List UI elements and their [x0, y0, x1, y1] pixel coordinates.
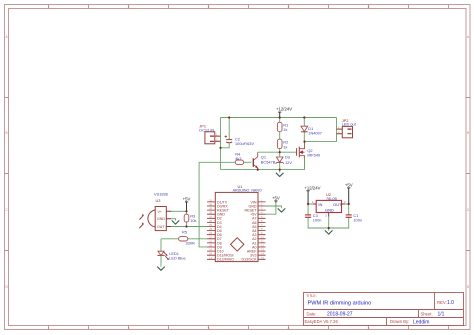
node: C2 bottom junction [219, 147, 221, 149]
svg-text:U3: U3 [156, 198, 161, 203]
wire: +12/24V top rail [221, 117, 337, 119]
svg-text:8: 8 [368, 326, 370, 330]
U1 left pins [207, 202, 215, 259]
svg-text:B: B [6, 131, 8, 135]
svg-text:10k: 10k [190, 218, 196, 223]
resistor R1 [277, 118, 288, 140]
svg-text:EasyEDA V5.7.26: EasyEDA V5.7.26 [305, 319, 339, 324]
svg-text:1k: 1k [283, 144, 287, 149]
node: +12/24V / R1 junction [279, 116, 281, 118]
node: Q1 emitter junction [257, 169, 259, 171]
wire: U1 +5V pin to +5V flag [266, 203, 276, 214]
svg-text:6: 6 [288, 5, 290, 9]
capacitor C3 [305, 213, 321, 222]
power flag +5V at U1 [272, 196, 280, 203]
svg-text:LED Blue: LED Blue [169, 256, 185, 261]
node: D1 bottom / Q2 drain junction [303, 141, 305, 143]
title block (decorative) [304, 293, 464, 326]
wire: ground rail bottom of input stage [221, 169, 305, 171]
svg-text:GND: GND [325, 207, 334, 212]
connector JP2 LED out [337, 118, 357, 138]
svg-text:OUT: OUT [157, 225, 165, 229]
svg-text:Leddim: Leddim [413, 320, 429, 326]
node: R3 bottom / OUT junction [185, 225, 187, 227]
ground below zener stage [276, 170, 284, 177]
svg-text:REV:: REV: [437, 300, 447, 305]
resistor R2 [277, 139, 288, 152]
wire: R4 net vertical down to Arduino D9 [199, 162, 207, 247]
svg-text:R5: R5 [182, 230, 187, 235]
svg-text:100n: 100n [353, 218, 362, 223]
svg-text:3: 3 [128, 326, 130, 330]
svg-text:ARDUINO_NANO: ARDUINO_NANO [233, 188, 262, 193]
svg-text:4k7: 4k7 [235, 156, 241, 161]
svg-text:6: 6 [288, 326, 290, 330]
node: gate node junction R2/D3 [279, 151, 281, 153]
resistor R3 10k [184, 211, 196, 226]
svg-text:330R: 330R [186, 241, 195, 246]
ground at IR receiver GND pin [171, 219, 179, 224]
wire: regulator left column [308, 204, 329, 228]
svg-text:12V: 12V [285, 160, 292, 165]
svg-text:3: 3 [128, 5, 130, 9]
svg-text:D13/SCK: D13/SCK [242, 258, 258, 262]
svg-text:Sheet:: Sheet: [421, 311, 433, 316]
svg-text:1N4007: 1N4007 [308, 130, 322, 135]
node: C2 top junction [228, 116, 230, 118]
capacitor C1 [346, 213, 362, 222]
transistor Q2 IRF540 [297, 142, 321, 170]
diamond logo inside U1 [231, 238, 244, 251]
svg-text:PWM IR dimming arduino: PWM IR dimming arduino [308, 301, 372, 307]
node: zener ground junction [279, 169, 281, 171]
U1 right pins [258, 202, 266, 259]
svg-text:+5V: +5V [345, 182, 353, 187]
connector JP1 [199, 123, 220, 144]
svg-text:1/1: 1/1 [438, 312, 445, 318]
svg-text:D12/MISO: D12/MISO [217, 258, 234, 262]
wire: GND pin down [328, 217, 330, 229]
svg-text:5: 5 [208, 326, 210, 330]
zener diode D3 12V [276, 152, 293, 169]
wire: JP2 branch vertical and lower horizontal to Q2 drain [305, 118, 337, 142]
wire: Q2 source down to ground rail corner [304, 158, 306, 170]
wire: V+ to +5V node [171, 210, 186, 212]
svg-text:+12/24V: +12/24V [304, 185, 320, 190]
capacitor C2 [221, 118, 255, 148]
svg-text:+5V: +5V [183, 196, 191, 201]
resistor R5 330R [161, 230, 207, 246]
svg-text:IN: IN [318, 202, 322, 207]
node: regulator IN junction [307, 203, 309, 205]
svg-text:TITLE:: TITLE: [306, 294, 317, 298]
IR receiver U3 VS1838 [139, 192, 171, 231]
svg-text:VS1838: VS1838 [154, 192, 168, 197]
ground at U1 right [278, 208, 286, 212]
ground below LED1 [157, 255, 165, 270]
power flag +5V at IR receiver [183, 196, 191, 211]
IC U1 ARDUINO_NANO [215, 184, 262, 262]
svg-text:1.0: 1.0 [447, 300, 454, 306]
node: +5V / R3 top junction [185, 210, 187, 212]
node: D1 top junction [303, 116, 305, 118]
svg-text:+12/24V: +12/24V [276, 107, 292, 112]
svg-text:100uF/63V: 100uF/63V [235, 141, 254, 146]
node: regulator OUT junction [348, 203, 350, 205]
svg-text:8: 8 [368, 5, 370, 9]
svg-text:2018-09-27: 2018-09-27 [327, 312, 353, 318]
diode D1 1N4007 [301, 118, 322, 142]
wire: left vertical from JP1/C2 down to ground rail [220, 118, 222, 170]
IC U2 78L05 [308, 192, 349, 218]
svg-text:BC547B: BC547B [261, 160, 276, 165]
svg-text:1k: 1k [283, 127, 287, 132]
svg-text:1: 1 [48, 326, 50, 330]
wire: OUT line to Arduino D4 [171, 226, 207, 228]
node: regulator ground junction [328, 227, 330, 229]
svg-text:GND: GND [157, 217, 165, 221]
power flag +5V at regulator [345, 182, 353, 204]
svg-text:IRF540: IRF540 [307, 153, 321, 158]
svg-text:OUT: OUT [333, 202, 342, 207]
wire: regulator right column [329, 204, 349, 228]
svg-text:Drawn By:: Drawn By: [390, 319, 409, 324]
wire: gate node horizontal Q1 collector to Q2 gate [258, 151, 297, 153]
resistor R4 4k7 [199, 152, 251, 165]
power flag +12/24V at regulator [304, 185, 320, 204]
svg-text:B: B [467, 131, 469, 135]
junction dots [185, 116, 349, 229]
transistor Q1 BC547B [253, 152, 275, 169]
svg-text:LED out: LED out [342, 122, 357, 127]
wire: U1 GND pin to ground symbol [266, 206, 282, 208]
svg-text:+5V: +5V [272, 196, 280, 201]
svg-text:100n: 100n [313, 218, 322, 223]
svg-text:V+: V+ [158, 210, 163, 214]
svg-text:5: 5 [208, 5, 210, 9]
svg-text:1: 1 [48, 5, 50, 9]
LED LED1 [157, 239, 185, 261]
ground below regulator [325, 228, 333, 234]
svg-text:Date:: Date: [307, 311, 317, 316]
power flag +12/24V main [276, 107, 292, 118]
